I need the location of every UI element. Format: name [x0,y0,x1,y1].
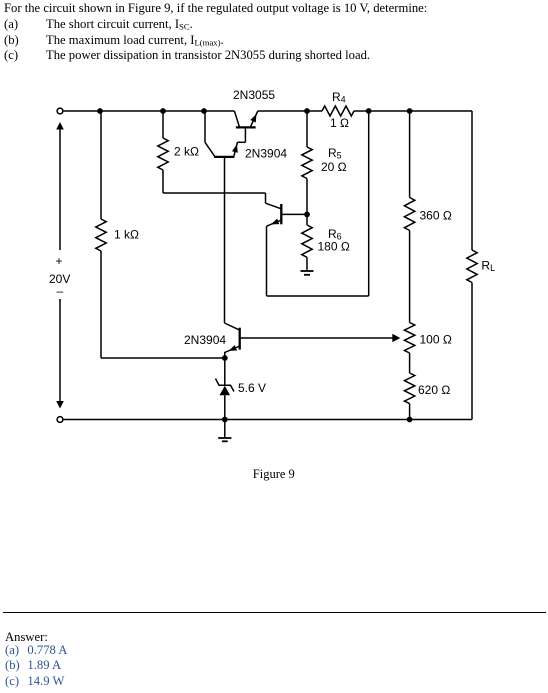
svg-text:2N3904: 2N3904 [184,333,226,347]
svg-text:R4: R4 [332,90,346,105]
svg-text:–: – [57,284,64,298]
svg-text:5.6 V: 5.6 V [238,381,266,395]
svg-text:+: + [56,254,63,268]
svg-text:100 Ω: 100 Ω [420,333,452,347]
svg-text:360 Ω: 360 Ω [420,209,452,223]
svg-text:R5: R5 [328,146,342,161]
svg-text:1 kΩ: 1 kΩ [114,228,139,242]
svg-text:RL: RL [481,259,495,274]
svg-text:620 Ω: 620 Ω [418,383,450,397]
svg-text:2N3904: 2N3904 [245,147,287,161]
svg-text:2N3055: 2N3055 [233,88,275,102]
svg-text:180 Ω: 180 Ω [318,240,350,254]
svg-text:2 kΩ: 2 kΩ [174,145,199,159]
svg-text:20 Ω: 20 Ω [321,160,347,174]
svg-text:1 Ω: 1 Ω [330,116,349,130]
